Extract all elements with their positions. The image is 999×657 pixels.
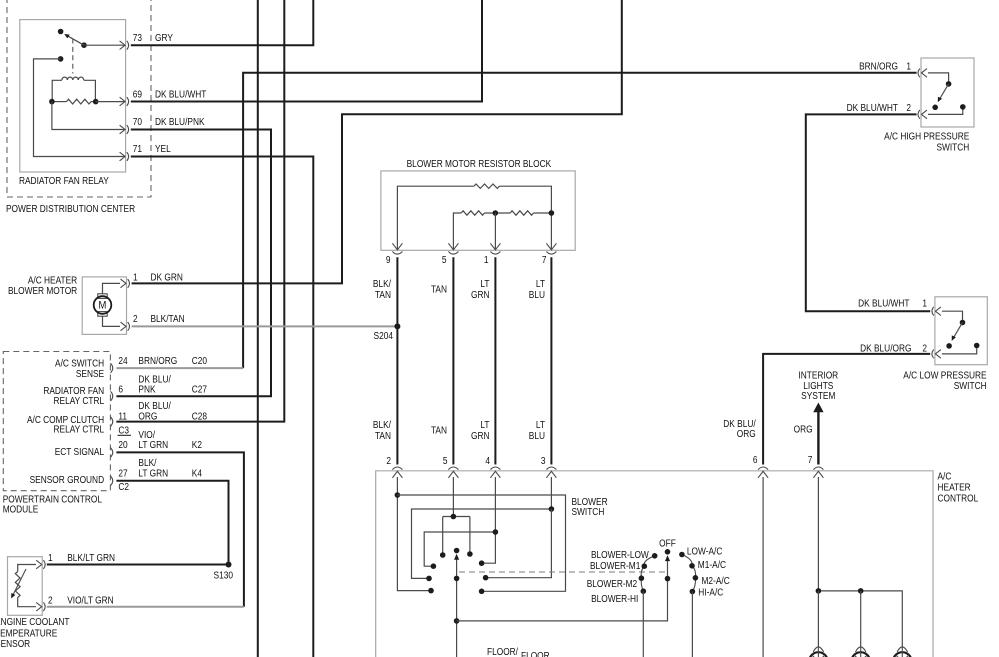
svg-text:3: 3: [541, 455, 546, 466]
mode switch pole arrow: [665, 555, 670, 561]
radiator fan relay box: [20, 20, 126, 172]
contact BLOWER-M2: [639, 575, 645, 581]
relay pin 71 connector: [120, 152, 126, 161]
ECT sensor box: [8, 557, 43, 616]
wire BRN/ORG PCM pin 24 horizontal: [116, 367, 243, 369]
svg-text:20: 20: [118, 440, 127, 451]
svg-text:LT GRN: LT GRN: [138, 440, 168, 451]
relay wire contact C to pin 71: [34, 59, 125, 157]
svg-text:BLU: BLU: [529, 431, 545, 442]
svg-text:DK BLU/ORG: DK BLU/ORG: [860, 343, 911, 354]
power distribution center box: [7, 0, 151, 197]
svg-text:SWITCH: SWITCH: [954, 380, 987, 391]
relay pin 69 connector: [120, 97, 126, 106]
svg-text:TAN: TAN: [431, 284, 447, 295]
svg-text:BLOWER-LOW: BLOWER-LOW: [591, 549, 649, 560]
blower switch pin5 branch: [443, 477, 470, 553]
svg-text:DK BLU/PNK: DK BLU/PNK: [155, 116, 205, 127]
svg-text:2: 2: [386, 455, 391, 466]
wire LT GRN resistor pin1 to control pin4: [494, 257, 496, 464]
ECT pin 1 connector: [36, 560, 42, 569]
PCM pin 20 connector: [111, 448, 113, 458]
svg-text:C20: C20: [192, 355, 207, 366]
svg-text:69: 69: [133, 89, 142, 100]
blower motor resistor block box: [381, 171, 575, 250]
blower switch wiper arm: [456, 557, 458, 657]
hp switch wire pin1 to contact: [928, 73, 949, 82]
lp switch right contact: [974, 343, 980, 349]
svg-text:BLOWER-HI: BLOWER-HI: [591, 594, 638, 605]
svg-text:ORG: ORG: [794, 424, 813, 435]
svg-text:5: 5: [443, 455, 448, 466]
resistor block wire pin5 to R2: [453, 213, 461, 249]
blower contact arc: [641, 556, 655, 591]
ECT pin 2 connector: [36, 602, 42, 611]
mode switch pole contact: [665, 549, 671, 555]
contact M2-A/C: [693, 575, 699, 581]
svg-text:GRN: GRN: [471, 289, 490, 300]
ECT inner wires: [18, 565, 36, 607]
resistor block wire R3 to pin7 leg: [534, 212, 552, 214]
relay pin 73 connector: [120, 41, 126, 50]
svg-text:DK BLU/WHT: DK BLU/WHT: [847, 102, 899, 113]
wire pin 7 inside control to lamp rail: [817, 477, 819, 591]
hp switch movable contact: [932, 105, 938, 111]
svg-text:C28: C28: [192, 411, 207, 422]
illumination lamp 2: [856, 647, 866, 652]
svg-text:BLK/LT GRN: BLK/LT GRN: [67, 552, 115, 563]
svg-text:LT: LT: [480, 420, 490, 431]
svg-text:2: 2: [906, 102, 911, 113]
svg-text:9: 9: [386, 254, 391, 265]
svg-text:CONTROL: CONTROL: [938, 493, 979, 504]
wire pin 6 inside control: [762, 477, 764, 657]
svg-text:SENSOR GROUND: SENSOR GROUND: [30, 475, 105, 486]
resistor block wire pin1 leg: [494, 213, 496, 249]
svg-text:5: 5: [442, 254, 447, 265]
mode switch pole junction: [665, 576, 671, 582]
junction resistor block pin1: [493, 210, 499, 216]
contact BLOWER-HI: [641, 588, 647, 594]
lp switch movable contact: [946, 343, 952, 349]
wire YEL from relay pin 71 down offpage: [131, 157, 313, 657]
wire BLK/TAN motor pin 2 to S204: [132, 325, 398, 327]
blower switch pin3 branch: [412, 477, 552, 578]
svg-text:LT GRN: LT GRN: [138, 468, 168, 479]
svg-text:ORG: ORG: [737, 428, 756, 439]
wire DK BLU/ORG low pressure sw pin 2 to control pin 6: [763, 354, 930, 465]
svg-text:BRN/ORG: BRN/ORG: [859, 61, 898, 72]
resistor R1: [474, 184, 500, 188]
relay coil rails: [52, 80, 95, 101]
svg-text:VIO/: VIO/: [138, 429, 155, 440]
svg-text:TAN: TAN: [431, 425, 447, 436]
wire wiper to mode switch pole: [457, 557, 668, 621]
resistor R3: [510, 211, 533, 215]
svg-text:1: 1: [48, 552, 53, 563]
motor inner wire pin2: [103, 316, 121, 326]
lp switch wire pin1 to contact: [942, 311, 963, 320]
svg-text:SWITCH: SWITCH: [936, 142, 969, 153]
contact blower-M1 right: [479, 560, 485, 566]
blower motor box: [82, 277, 126, 335]
powertrain control module dashed box: [3, 352, 110, 491]
motor inner wire pin1: [103, 283, 121, 294]
svg-text:MODULE: MODULE: [3, 504, 39, 515]
relay contact C: [58, 56, 64, 62]
A/C heater control box: [376, 471, 933, 657]
svg-text:VIO/LT GRN: VIO/LT GRN: [67, 595, 113, 606]
resistor block wire R1 to pin7 leg: [499, 186, 551, 249]
svg-text:1: 1: [133, 272, 138, 283]
svg-text:27: 27: [118, 468, 127, 479]
resistor block pin 1 connector: [490, 243, 500, 250]
lp switch pin 2 connector: [935, 350, 941, 359]
wire VIO/LT GRN PCM pin 20 to ECT pin 2 riser: [116, 452, 243, 606]
wire BRN/ORG PCM pin 24 riser: [243, 73, 917, 368]
wire DK BLU/PNK relay pin 70 to PCM pin 6: [116, 130, 271, 397]
svg-text:FLOOR: FLOOR: [521, 651, 550, 657]
relay switch blade: [67, 35, 85, 45]
relay resistor: [52, 101, 67, 103]
motor symbol M: [94, 296, 112, 314]
contact blower-M2 right: [483, 575, 489, 581]
svg-text:TAN: TAN: [375, 289, 391, 300]
svg-text:BLK/: BLK/: [373, 420, 392, 431]
relay pin 70 connector: [120, 125, 126, 134]
wire DK BLU/WHT from relay pin 69 up offpage: [131, 0, 482, 102]
svg-text:DK BLU/: DK BLU/: [138, 401, 171, 412]
control pin 6 connector: [758, 467, 768, 470]
svg-text:FLOOR/: FLOOR/: [487, 647, 518, 657]
relay resistor left junction: [49, 99, 55, 105]
svg-text:YEL: YEL: [155, 143, 171, 154]
resistor block pin 5 connector: [448, 243, 458, 250]
control pin 3 connector: [546, 467, 556, 470]
relay switch contact A: [58, 29, 64, 35]
contact blower-LOW left: [440, 552, 446, 558]
svg-text:LOW-A/C: LOW-A/C: [687, 546, 723, 557]
svg-text:71: 71: [133, 143, 142, 154]
offpage arrow to interior lights: [813, 403, 823, 413]
lamp rail junction 1: [816, 588, 822, 594]
hp switch blade: [940, 84, 949, 99]
svg-text:A/C HEATER: A/C HEATER: [28, 275, 78, 286]
svg-text:LIGHTS: LIGHTS: [803, 380, 833, 391]
blower switch wiper common contact: [454, 548, 460, 554]
resistor block pin 7 connector: [546, 243, 556, 250]
illumination lamp 1: [813, 647, 823, 652]
wire BLK/LT GRN ECT pin 1 to S130: [47, 481, 229, 565]
svg-text:DK BLU/WHT: DK BLU/WHT: [858, 298, 910, 309]
relay wire resistor to pin 69: [96, 101, 125, 103]
lamp rail: [818, 591, 902, 647]
svg-text:1: 1: [906, 61, 911, 72]
svg-text:BLU: BLU: [529, 289, 545, 300]
wiper arm junction: [454, 576, 460, 582]
wire TAN resistor pin5 to control pin5: [452, 257, 454, 464]
svg-text:C2: C2: [118, 481, 129, 492]
svg-text:24: 24: [118, 355, 127, 366]
svg-text:RELAY CTRL: RELAY CTRL: [54, 424, 105, 435]
contact blower-HI right: [479, 589, 485, 595]
svg-text:S130: S130: [214, 570, 233, 581]
wire DK GRN blower motor pin 1 offpage: [132, 0, 622, 283]
svg-text:HI-A/C: HI-A/C: [698, 587, 723, 598]
svg-text:BLOWER MOTOR: BLOWER MOTOR: [8, 285, 78, 296]
contact blower-HI left: [428, 588, 434, 594]
lamp rail junction 2: [858, 588, 864, 594]
hp switch top contact: [946, 81, 952, 87]
svg-text:INTERIOR: INTERIOR: [798, 370, 838, 381]
wire to lamp 2: [860, 591, 862, 647]
wire to lamp 1: [817, 591, 819, 647]
hp switch pin 2 connector: [922, 110, 928, 119]
svg-text:PNK: PNK: [138, 384, 155, 395]
svg-text:K2: K2: [192, 440, 202, 451]
svg-text:POWERTRAIN CONTROL: POWERTRAIN CONTROL: [3, 494, 102, 505]
relay resistor right junction: [93, 99, 99, 105]
relay actuator dashed link: [72, 39, 74, 74]
PCM pin 6 connector: [111, 391, 113, 401]
blower switch pin4 branch: [424, 477, 495, 566]
lp switch blade: [954, 323, 963, 338]
svg-text:73: 73: [133, 33, 142, 44]
svg-text:1: 1: [922, 298, 927, 309]
svg-text:LT: LT: [480, 278, 490, 289]
splice S204: [394, 323, 400, 329]
contact blower-M2 left: [426, 576, 432, 582]
control pin 5 connector: [448, 467, 458, 470]
contact blower-M1 left: [431, 563, 437, 569]
svg-text:SENSE: SENSE: [76, 368, 104, 379]
svg-text:SENSOR: SENSOR: [0, 638, 31, 649]
svg-text:2: 2: [133, 314, 138, 325]
hp switch right contact: [960, 104, 966, 110]
wire VIO/LT GRN ECT pin 2 horizontal: [47, 606, 244, 608]
svg-text:A/C HIGH PRESSURE: A/C HIGH PRESSURE: [884, 131, 969, 142]
contact blower-LOW right: [467, 551, 473, 557]
svg-text:ORG: ORG: [138, 411, 157, 422]
svg-text:70: 70: [133, 116, 142, 127]
svg-text:BLK/: BLK/: [138, 458, 157, 469]
svg-text:OFF: OFF: [659, 538, 676, 549]
svg-text:C27: C27: [192, 384, 207, 395]
svg-text:BLK/: BLK/: [373, 278, 392, 289]
svg-text:6: 6: [753, 454, 758, 465]
ECT thermistor: [15, 572, 20, 598]
svg-text:BLK/TAN: BLK/TAN: [150, 314, 184, 325]
resistor block pin 9 connector: [392, 243, 402, 250]
contact M1-A/C: [689, 563, 695, 569]
control pin 2 connector: [392, 467, 402, 470]
wiper arm bottom junction: [454, 618, 460, 624]
svg-text:2: 2: [922, 343, 927, 354]
resistor R2: [461, 211, 484, 215]
svg-text:BLOWER-M1: BLOWER-M1: [590, 560, 640, 571]
svg-text:SYSTEM: SYSTEM: [801, 391, 835, 402]
junction at pin7 leg: [549, 210, 555, 216]
wire BLOWER-HI down: [642, 591, 644, 657]
motor brush caps: [98, 294, 107, 299]
svg-text:SWITCH: SWITCH: [571, 507, 604, 518]
wire LT BLU resistor pin7 to control pin3: [550, 257, 552, 464]
lp switch pin 1 connector: [935, 307, 941, 316]
relay switch wire to pin 73: [84, 44, 125, 46]
wire ORG control pin 7 to interior lights: [817, 412, 819, 465]
svg-text:M2-A/C: M2-A/C: [702, 575, 731, 586]
svg-text:TEMPERATURE: TEMPERATURE: [0, 628, 57, 639]
wire HI-A/C down: [691, 592, 693, 657]
wire DK BLU/WHT high pressure sw pin 2 to low pressure sw pin 1: [806, 114, 930, 311]
hp switch wire pin2 to right contact: [928, 109, 963, 114]
svg-text:DK GRN: DK GRN: [150, 272, 182, 283]
PCM pin 24 connector: [111, 363, 113, 373]
wire BLK/TAN resistor pin9 to control pin2: [396, 257, 398, 464]
svg-text:M1-A/C: M1-A/C: [698, 559, 727, 570]
svg-text:RADIATOR FAN RELAY: RADIATOR FAN RELAY: [19, 175, 109, 186]
svg-text:A/C: A/C: [938, 471, 952, 482]
contact BLOWER-M1: [642, 563, 648, 569]
control pin 7 connector: [813, 467, 823, 470]
svg-text:1: 1: [484, 254, 489, 265]
hp switch pin 1 connector: [922, 69, 928, 78]
PCM pin 11 connector: [111, 417, 113, 427]
svg-text:M: M: [99, 300, 107, 312]
illumination lamp 3: [897, 647, 907, 652]
resistor block mid wire with junction: [485, 212, 511, 214]
contact BLOWER-LOW: [652, 553, 658, 559]
svg-text:S204: S204: [374, 330, 393, 341]
resistor block wire pin9 to R1: [397, 186, 474, 249]
svg-text:7: 7: [808, 454, 813, 465]
PCM pin 27 connector: [111, 476, 113, 486]
svg-text:BRN/ORG: BRN/ORG: [138, 355, 177, 366]
relay switch common B: [81, 42, 87, 48]
splice S130: [226, 562, 232, 568]
blower switch pin2 node and loop: [397, 477, 431, 591]
svg-text:LT: LT: [536, 420, 546, 431]
svg-text:11: 11: [118, 411, 127, 422]
relay wire to pin 70: [52, 102, 125, 130]
motor pin 2 connector: [121, 322, 127, 331]
svg-text:TAN: TAN: [375, 431, 391, 442]
wire DK BLU/ORG PCM pin 11 to offpage top: [116, 0, 284, 422]
control pin 4 connector: [490, 467, 500, 470]
ECT thermistor arrow: [13, 569, 26, 595]
wire GRY from relay pin 73 up offpage: [131, 0, 313, 45]
relay coil L1: [62, 77, 84, 80]
svg-text:GRY: GRY: [155, 33, 173, 44]
lp switch wire pin2 to right contact: [942, 348, 977, 354]
svg-text:HEATER: HEATER: [938, 482, 972, 493]
svg-text:BLOWER-M2: BLOWER-M2: [587, 578, 637, 589]
svg-text:4: 4: [485, 455, 490, 466]
svg-text:A/C LOW PRESSURE: A/C LOW PRESSURE: [903, 370, 986, 381]
svg-text:ECT SIGNAL: ECT SIGNAL: [55, 447, 104, 458]
motor pin 1 connector: [121, 279, 127, 288]
svg-text:BLOWER MOTOR RESISTOR BLOCK: BLOWER MOTOR RESISTOR BLOCK: [407, 159, 552, 170]
svg-text:ENGINE COOLANT: ENGINE COOLANT: [0, 617, 70, 628]
A/C high pressure switch box: [921, 58, 974, 127]
svg-text:GRN: GRN: [471, 431, 490, 442]
svg-text:LT: LT: [536, 278, 546, 289]
svg-text:6: 6: [118, 384, 123, 395]
lp switch top contact: [960, 320, 966, 326]
mechanical coupling dashed line: [459, 571, 665, 573]
contact LOW-A/C: [679, 552, 685, 558]
svg-text:K4: K4: [192, 468, 202, 479]
contact HI-A/C: [690, 589, 696, 595]
svg-text:RELAY CTRL: RELAY CTRL: [54, 396, 105, 407]
svg-text:C3: C3: [118, 425, 129, 436]
A/C low pressure switch box: [935, 297, 987, 365]
wire pass-through vertical 1: [257, 0, 259, 657]
A/C contact arc: [682, 555, 696, 592]
svg-text:2: 2: [48, 595, 53, 606]
svg-text:DK BLU/WHT: DK BLU/WHT: [155, 89, 207, 100]
svg-text:POWER DISTRIBUTION CENTER: POWER DISTRIBUTION CENTER: [6, 203, 136, 214]
svg-text:7: 7: [542, 254, 547, 265]
